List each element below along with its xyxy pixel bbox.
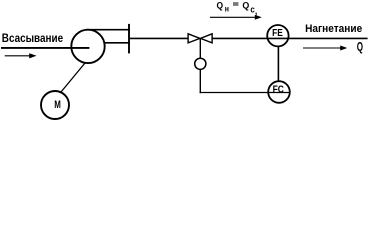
control valve V1 body — [188, 34, 212, 43]
svg-text:Нагнетание: Нагнетание — [305, 23, 362, 35]
svg-text:н: н — [225, 3, 229, 13]
svg-text:FC: FC — [273, 83, 285, 95]
motor M body — [41, 91, 69, 119]
pump discharge flange — [128, 24, 130, 54]
wire: valve stem — [199, 38, 201, 58]
valve actuator bubble — [195, 58, 206, 69]
flow direction arrow under Qн=Qс — [210, 15, 262, 20]
wire: motor to pump shaft link — [61, 63, 85, 92]
wire: discharge pipe valve to outlet (through FE) — [212, 37, 368, 39]
flow controller FC bubble — [268, 81, 290, 103]
flow element FE bubble — [267, 25, 288, 46]
wire: control signal vertical (actuator down) — [199, 69, 201, 93]
svg-text:Q: Q — [357, 40, 363, 54]
svg-text:FE: FE — [272, 27, 283, 39]
wire: control signal horizontal to FC (with chord through FC) — [200, 92, 290, 94]
svg-text:Q: Q — [242, 0, 249, 10]
wire: discharge pipe flange to valve — [129, 37, 189, 39]
svg-text:,: , — [255, 6, 257, 16]
svg-text:Всасывание: Всасывание — [2, 31, 63, 45]
pump nozzle top line — [86, 29, 130, 31]
discharge flow arrow — [303, 46, 347, 51]
svg-text:М: М — [54, 99, 61, 111]
label Qн = Qс, (setpoint equation) — [217, 0, 258, 16]
suction flow arrow — [5, 53, 37, 58]
pump P1 body — [71, 30, 104, 63]
pump nozzle bottom line — [104, 42, 130, 44]
wire: measurement signal FE to FC — [277, 47, 279, 82]
svg-text:Q: Q — [217, 0, 224, 10]
wire: suction pipe into pump — [1, 47, 89, 49]
